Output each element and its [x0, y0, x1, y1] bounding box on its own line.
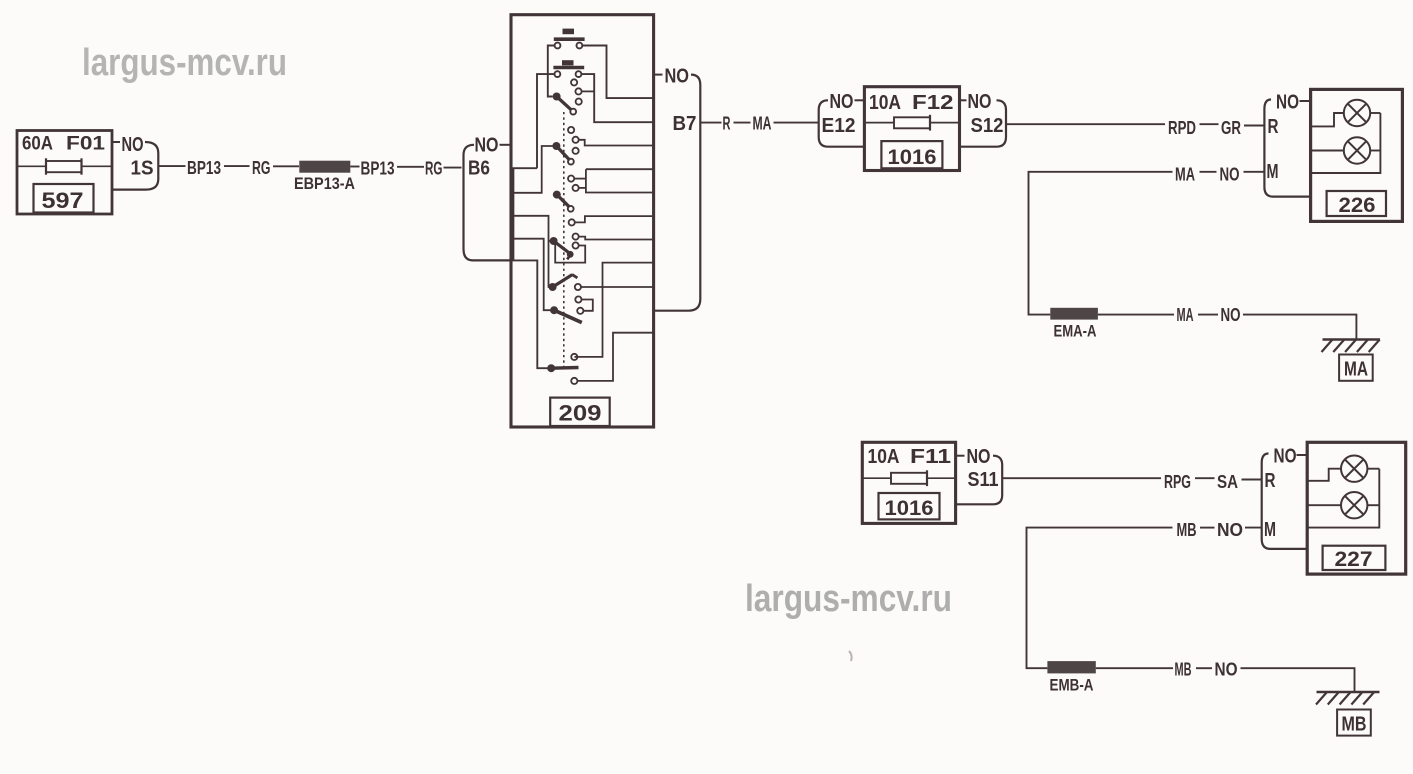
wire fuse line F12	[864, 122, 959, 124]
svg-text:EBP13-A: EBP13-A	[294, 175, 355, 193]
switch contact arm 4	[550, 237, 574, 259]
contact stud	[573, 234, 579, 240]
component label 226	[1327, 191, 1386, 217]
wire label NO ground	[1221, 304, 1241, 325]
contact stud	[575, 284, 581, 290]
connector bracket of 226	[1264, 100, 1310, 197]
wire splice EMB-A to MB label	[1096, 667, 1173, 669]
wire SA to pin R 227	[1242, 479, 1262, 481]
svg-text:NO: NO	[968, 91, 992, 113]
pin 1S of 597	[131, 158, 154, 180]
switch unit 209 outline	[511, 15, 654, 427]
lamp L2 of 226	[1344, 137, 1370, 163]
mechanical link dotted line	[563, 112, 565, 368]
svg-text:NO: NO	[1274, 446, 1297, 468]
wire mesh row y216	[575, 216, 653, 222]
ground label MA	[1339, 355, 1373, 381]
svg-text:597: 597	[42, 188, 84, 213]
switch contact arm 7	[547, 364, 578, 372]
connector bracket B6	[464, 145, 512, 261]
switch contact arm 1	[553, 93, 577, 115]
svg-text:NO: NO	[967, 446, 991, 468]
wire label R	[723, 113, 731, 134]
svg-text:MA: MA	[1175, 163, 1195, 184]
svg-text:1016: 1016	[888, 145, 937, 169]
wire bus feed 4	[512, 239, 551, 311]
wire push button 1 feed right	[582, 46, 653, 99]
wire S11 to RPG	[1002, 477, 1161, 479]
svg-text:NO: NO	[665, 66, 690, 88]
wire contact stud tap	[579, 187, 586, 189]
push button contact 1	[554, 29, 585, 49]
svg-text:RG: RG	[252, 157, 271, 178]
wire mesh row y192	[586, 169, 653, 192]
contact stud	[568, 127, 574, 133]
svg-text:R: R	[1265, 470, 1276, 492]
pin NO of F12 right	[960, 91, 992, 113]
svg-text:NO: NO	[1220, 163, 1240, 184]
svg-text:1016: 1016	[885, 496, 934, 520]
pin NO of 597	[112, 134, 144, 156]
svg-text:R: R	[1268, 116, 1279, 138]
label 10A F12	[869, 92, 954, 114]
component label 597	[34, 184, 94, 213]
svg-text:NO: NO	[1276, 92, 1299, 114]
svg-text:MA: MA	[1344, 359, 1368, 381]
wire R-MA	[734, 122, 751, 124]
fuse F11 symbol	[891, 470, 927, 486]
label 10A F11	[868, 446, 952, 468]
pin NO of F12 left	[830, 91, 865, 113]
pin NO of 227	[1274, 446, 1308, 468]
svg-text:RPG: RPG	[1164, 471, 1191, 492]
wire B7 to R	[701, 122, 722, 124]
wire M of 226 to MA	[1244, 171, 1265, 173]
pin NO of 209 left	[475, 135, 512, 157]
wire RPG-SA	[1195, 477, 1215, 479]
svg-text:NO: NO	[122, 134, 144, 156]
splice label EMB-A	[1050, 677, 1094, 695]
ground label MB	[1337, 710, 1371, 736]
svg-text:S12: S12	[971, 115, 1004, 137]
lamp unit 226 outline	[1311, 89, 1403, 221]
contact stud	[571, 79, 577, 85]
wire label SA	[1217, 471, 1238, 492]
wire lamp L2 left lead	[1311, 150, 1344, 152]
push button contact 2	[553, 60, 584, 77]
svg-text:209: 209	[559, 401, 602, 426]
pin S11	[968, 469, 999, 491]
pin M of 227	[1264, 519, 1276, 541]
wire M rail of 227	[1307, 469, 1379, 528]
wire MA-NO	[1200, 171, 1217, 173]
lamp L1 of 227	[1341, 456, 1367, 482]
wire label MB ground	[1175, 659, 1192, 680]
wire R feed to lamp L1 227	[1307, 469, 1341, 481]
wire M rail of 226	[1311, 113, 1381, 173]
connector bracket of 227	[1262, 454, 1308, 549]
svg-text:1S: 1S	[131, 158, 154, 180]
svg-text:227: 227	[1335, 547, 1373, 571]
wire MA-NO ground	[1198, 314, 1218, 316]
wire MA run to splice EMA-A	[1029, 172, 1173, 315]
fuse box 1016 upper outline	[864, 87, 959, 171]
contact stud	[573, 185, 579, 191]
wire contact stud tap	[581, 90, 594, 92]
contact stud	[575, 88, 581, 94]
fuse F12 symbol	[894, 115, 930, 131]
wire contact stud tap	[574, 178, 586, 180]
svg-text:NO: NO	[1221, 304, 1241, 325]
splice EBP13-A	[299, 161, 350, 173]
contact stud	[573, 242, 579, 248]
pin NO of 209 right	[654, 66, 690, 88]
wire label MA	[753, 113, 772, 134]
svg-text:226: 226	[1339, 193, 1376, 217]
wire mesh row y239	[579, 237, 653, 240]
wire label NO return lower	[1217, 519, 1243, 540]
wire label NO return	[1220, 163, 1240, 184]
wire fuse line F01	[17, 165, 112, 167]
wire label MA ground	[1177, 304, 1194, 325]
wire lamp L1 to rail	[1370, 112, 1380, 114]
svg-text:NO: NO	[1217, 519, 1243, 540]
svg-text:EMA-A: EMA-A	[1054, 323, 1097, 341]
wire R feed to lamp L1	[1311, 113, 1344, 126]
wire M of 227 to MB	[1245, 527, 1262, 529]
svg-text:10A: 10A	[869, 92, 901, 114]
pin R of 226	[1268, 116, 1279, 138]
wire push button 2 to left bus	[537, 74, 554, 168]
wire splice EMA-A to MA label	[1098, 314, 1174, 316]
fuse F01 symbol	[46, 158, 82, 174]
wire bus feed 2	[512, 146, 553, 193]
wire label BP13	[187, 157, 221, 178]
wire bus feed 1	[512, 167, 538, 169]
svg-text:E12: E12	[822, 115, 856, 137]
component label 1016 lower	[879, 493, 940, 520]
wire bus feed 3	[512, 216, 552, 287]
pin M of 226	[1267, 161, 1279, 183]
splice EMA-A	[1050, 308, 1098, 320]
label 60A F01	[22, 134, 106, 155]
ground symbol MA	[1322, 340, 1381, 353]
wire mesh row y332	[577, 333, 652, 381]
pin R of 227	[1265, 470, 1276, 492]
svg-text:MA: MA	[753, 113, 772, 134]
wire lamp L2 to rail	[1370, 150, 1380, 152]
watermark largus-mcv.ru top-left	[82, 42, 287, 84]
svg-text:largus-mcv.ru: largus-mcv.ru	[745, 578, 952, 620]
wire RPD-GR	[1200, 123, 1219, 125]
contact stud	[571, 378, 577, 384]
wire lamp L2 227 to rail	[1367, 504, 1379, 506]
svg-text:NO: NO	[830, 91, 854, 113]
wire RG to splice EBP13-A	[273, 165, 299, 167]
svg-text:MA: MA	[1177, 304, 1194, 325]
contact stud	[568, 176, 574, 182]
svg-text:F11: F11	[910, 446, 951, 468]
splice EMB-A	[1047, 661, 1095, 673]
svg-text:SA: SA	[1217, 471, 1238, 492]
svg-text:BP13: BP13	[361, 157, 395, 178]
wire label MB return	[1177, 519, 1197, 540]
splice label EMA-A	[1054, 323, 1097, 341]
component label 227	[1323, 546, 1386, 571]
wire mesh row y262 left	[555, 244, 585, 263]
pin B6 of 209	[468, 158, 490, 180]
wire mesh row y262 right	[574, 263, 652, 357]
wire label RPG	[1164, 471, 1191, 492]
contact stud	[571, 354, 577, 360]
component label 209	[550, 398, 610, 426]
wire B6 entry to contact 7	[511, 260, 548, 368]
svg-text:60A: 60A	[22, 134, 53, 155]
wire push button 1 to contact arm 1	[548, 46, 555, 97]
connector bracket of 597	[112, 142, 158, 190]
connector bracket B7	[653, 75, 701, 311]
connector bracket E12	[819, 100, 865, 146]
lamp unit 227 outline	[1307, 442, 1406, 574]
svg-text:EMB-A: EMB-A	[1050, 677, 1094, 695]
wire mesh row y145	[579, 140, 653, 146]
pin E12	[822, 115, 856, 137]
wire MA to pin E12	[774, 122, 819, 124]
wire MB-NO ground	[1196, 667, 1212, 669]
wire NO to ground MA	[1243, 315, 1356, 339]
svg-text:10A: 10A	[868, 446, 900, 468]
connector bracket S11	[956, 456, 1003, 505]
wire GR to pin R	[1244, 125, 1264, 127]
connector bracket S12	[960, 100, 1007, 146]
switch contact arm 6	[550, 306, 582, 322]
wire left bus	[512, 168, 514, 260]
ground symbol MB	[1316, 692, 1380, 705]
wire label RG second	[425, 157, 443, 178]
pin B7 of 209	[673, 113, 697, 135]
svg-text:RG: RG	[425, 157, 443, 178]
wire BP13-RG	[224, 165, 250, 167]
svg-text:R: R	[723, 113, 731, 134]
wire mesh row y287	[581, 286, 653, 288]
svg-text:MB: MB	[1175, 659, 1192, 680]
pin NO of 226	[1276, 92, 1311, 114]
watermark largus-mcv.ru centre	[745, 578, 952, 620]
contact stud	[576, 99, 582, 105]
wire label GR	[1221, 117, 1241, 138]
contact stud	[577, 308, 583, 314]
splice label EBP13-A	[294, 175, 355, 193]
wire mesh row y169	[586, 168, 653, 170]
svg-text:B6: B6	[468, 158, 490, 180]
fuse box 1016 lower outline	[862, 442, 955, 523]
fuse box 597 outline	[17, 131, 112, 215]
contact stud	[573, 137, 579, 143]
switch contact arm 2	[552, 142, 573, 165]
wire BP13-RG second	[397, 166, 424, 168]
wire S12 to RPD	[1006, 123, 1165, 125]
wire contact stud link	[582, 300, 593, 311]
svg-text:largus-mcv.ru: largus-mcv.ru	[82, 42, 287, 84]
svg-text:M: M	[1267, 161, 1279, 183]
svg-text:NO: NO	[475, 135, 499, 157]
switch contact arm 3	[553, 191, 574, 212]
wire lamp L1 227 to rail	[1367, 468, 1379, 470]
wire RG to pin B6	[444, 167, 462, 169]
svg-text:MB: MB	[1342, 714, 1367, 736]
lamp L1 of 226	[1344, 100, 1370, 126]
wire label BP13 second	[361, 157, 395, 178]
pin NO of F11	[956, 446, 991, 468]
wire label MA return	[1175, 163, 1195, 184]
svg-text:MB: MB	[1177, 519, 1197, 540]
svg-text:BP13: BP13	[187, 157, 221, 178]
svg-text:M: M	[1264, 519, 1276, 541]
wire label RPD	[1168, 117, 1196, 138]
svg-text:RPD: RPD	[1168, 117, 1196, 138]
svg-text:NO: NO	[1215, 659, 1238, 680]
wire label RG	[252, 157, 271, 178]
wire label NO ground lower	[1215, 659, 1238, 680]
wire 1S to BP13	[158, 165, 185, 167]
wire MB-NO	[1200, 527, 1215, 529]
contact stud	[569, 219, 575, 225]
lamp L2 of 227	[1341, 492, 1367, 518]
wire MB run to splice EMB-A	[1027, 528, 1173, 669]
switch contact arm 5	[549, 274, 578, 291]
svg-text:F12: F12	[912, 92, 954, 114]
svg-text:S11: S11	[968, 469, 999, 491]
svg-text:GR: GR	[1221, 117, 1241, 138]
wire contact arm 4 feed	[549, 240, 552, 242]
contact stud	[573, 148, 579, 154]
svg-text:F01: F01	[66, 134, 106, 155]
pin S12	[971, 115, 1004, 137]
wire splice to BP13	[350, 166, 359, 168]
contact stud	[575, 296, 581, 302]
wire fuse line F11	[862, 477, 955, 479]
scan mark	[849, 651, 852, 661]
component label 1016 upper	[881, 141, 942, 169]
wire push button 2 feed right	[581, 74, 652, 122]
svg-text:B7: B7	[673, 113, 697, 135]
wire NO to ground MB	[1241, 668, 1355, 691]
wire lamp L2 227 left lead	[1307, 504, 1341, 506]
